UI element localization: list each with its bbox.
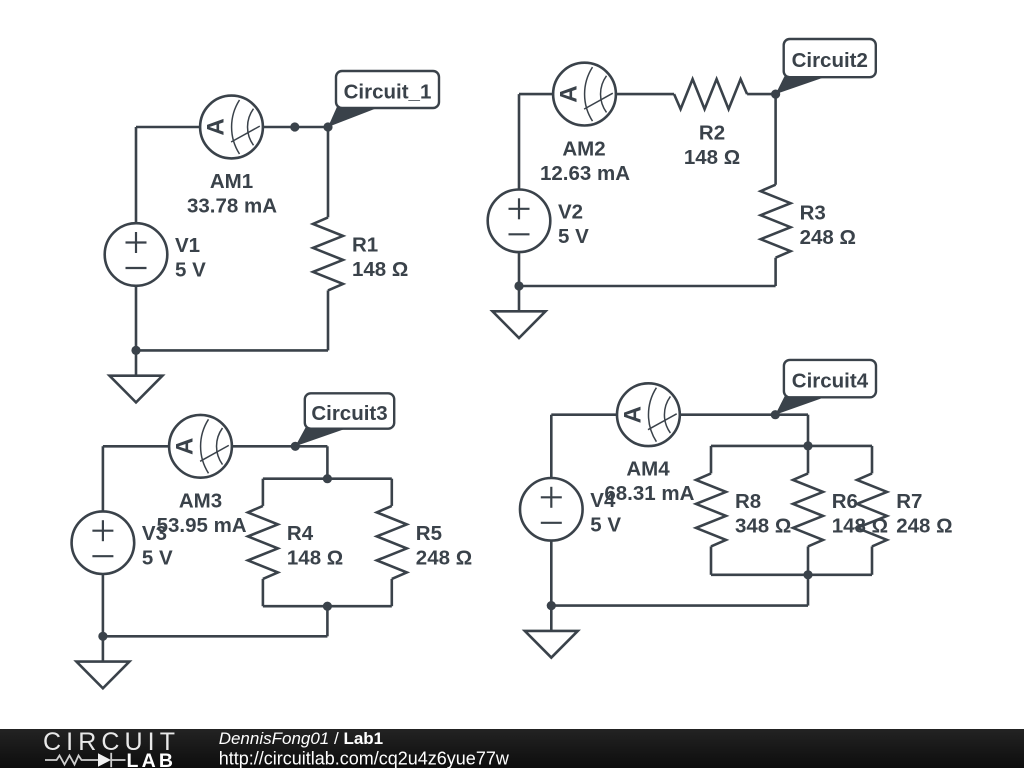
voltage source V1 xyxy=(105,223,168,286)
svg-text:Circuit2: Circuit2 xyxy=(792,49,868,72)
junction dot xyxy=(803,441,812,450)
logo resistor-diode glyph xyxy=(45,753,126,767)
wire xyxy=(136,349,328,352)
voltage source V4 xyxy=(520,478,583,541)
wire xyxy=(136,126,328,129)
node Circuit4 dot xyxy=(771,410,780,419)
node Circuit_1 dot xyxy=(323,122,332,131)
voltage source V3 xyxy=(72,511,135,574)
wire xyxy=(807,575,810,606)
svg-text:DennisFong01 / Lab1: DennisFong01 / Lab1 xyxy=(219,729,383,748)
wire xyxy=(390,579,393,606)
ammeter AM3 xyxy=(169,415,232,478)
svg-text:Circuit4: Circuit4 xyxy=(792,370,869,393)
wire xyxy=(807,415,810,446)
junction dot xyxy=(131,346,140,355)
svg-text:AM3: AM3 xyxy=(179,489,222,512)
svg-text:AM1: AM1 xyxy=(210,170,253,193)
svg-text:R5: R5 xyxy=(416,522,442,545)
junction dot xyxy=(803,570,812,579)
wire xyxy=(326,606,329,636)
svg-text:248 Ω: 248 Ω xyxy=(416,547,472,570)
wire xyxy=(262,479,265,506)
svg-text:A: A xyxy=(172,438,199,455)
svg-text:248 Ω: 248 Ω xyxy=(800,226,856,249)
wire xyxy=(327,127,330,217)
ground GND3 xyxy=(76,636,129,688)
wire xyxy=(390,479,393,506)
svg-text:5 V: 5 V xyxy=(558,225,589,248)
wire xyxy=(135,127,138,350)
svg-text:148 Ω: 148 Ω xyxy=(684,146,740,169)
ground GND4 xyxy=(525,606,578,658)
wire xyxy=(774,94,777,185)
ground GND1 xyxy=(110,350,163,402)
net flag Circuit_1 xyxy=(328,71,439,127)
svg-text:348 Ω: 348 Ω xyxy=(735,514,791,537)
junction dot xyxy=(323,602,332,611)
voltage source V2 xyxy=(488,190,551,253)
wire xyxy=(710,546,713,574)
junction dot xyxy=(323,474,332,483)
wire xyxy=(262,579,265,606)
resistor R2 xyxy=(674,79,747,109)
svg-text:248 Ω: 248 Ω xyxy=(896,514,952,537)
wire xyxy=(103,635,328,638)
svg-text:R8: R8 xyxy=(735,490,761,513)
wire xyxy=(263,477,392,480)
resistor R1 xyxy=(313,217,343,290)
wire xyxy=(519,285,776,288)
svg-text:148 Ω: 148 Ω xyxy=(832,514,888,537)
net flag Circuit4 xyxy=(775,360,876,415)
svg-text:Circuit3: Circuit3 xyxy=(311,402,387,425)
wire xyxy=(519,93,674,96)
ammeter AM4 xyxy=(617,383,680,446)
svg-text:148 Ω: 148 Ω xyxy=(352,258,408,281)
wire xyxy=(102,446,105,636)
svg-text:A: A xyxy=(203,118,230,135)
svg-text:AM4: AM4 xyxy=(626,458,670,481)
junction dot xyxy=(98,632,107,641)
wire xyxy=(711,573,872,576)
wire xyxy=(711,445,872,448)
svg-text:V4: V4 xyxy=(590,489,616,512)
resistor R7 xyxy=(857,473,887,546)
junction dot xyxy=(514,281,523,290)
svg-text:R3: R3 xyxy=(800,201,826,224)
wire xyxy=(518,94,521,286)
wire xyxy=(807,446,810,474)
svg-text:Circuit_1: Circuit_1 xyxy=(344,81,432,104)
wire xyxy=(871,446,874,474)
wire xyxy=(807,546,810,574)
resistor R4 xyxy=(248,506,278,579)
node Circuit2 dot xyxy=(771,90,780,99)
resistor R6 xyxy=(793,473,823,546)
wire xyxy=(710,446,713,474)
ammeter AM1 xyxy=(200,96,263,159)
wire xyxy=(326,446,329,478)
wire xyxy=(550,415,553,606)
svg-text:R7: R7 xyxy=(896,490,922,513)
svg-text:V3: V3 xyxy=(142,522,167,545)
svg-text:R4: R4 xyxy=(287,522,314,545)
svg-text:5 V: 5 V xyxy=(142,547,173,570)
svg-text:33.78 mA: 33.78 mA xyxy=(187,195,277,218)
svg-text:53.95 mA: 53.95 mA xyxy=(157,514,247,537)
svg-text:148 Ω: 148 Ω xyxy=(287,547,343,570)
svg-text:V1: V1 xyxy=(175,234,200,257)
wire xyxy=(263,605,392,608)
node Circuit3 dot xyxy=(291,442,300,451)
resistor R8 xyxy=(696,473,726,546)
wire xyxy=(551,413,808,416)
wire xyxy=(327,290,330,350)
ground GND2 xyxy=(493,286,546,338)
wire xyxy=(774,258,777,286)
wire xyxy=(747,93,776,96)
svg-text:R2: R2 xyxy=(699,121,725,144)
net flag Circuit2 xyxy=(776,39,876,94)
svg-text:12.63 mA: 12.63 mA xyxy=(540,162,630,185)
junction dot xyxy=(547,601,556,610)
wire xyxy=(103,445,328,448)
wire xyxy=(871,546,874,574)
junction dot xyxy=(290,122,299,131)
svg-text:5 V: 5 V xyxy=(175,259,206,282)
svg-text:http://circuitlab.com/cq2u4z6y: http://circuitlab.com/cq2u4z6yue77w xyxy=(219,749,510,768)
svg-text:68.31 mA: 68.31 mA xyxy=(604,482,694,505)
svg-text:R1: R1 xyxy=(352,234,378,257)
svg-text:5 V: 5 V xyxy=(590,513,621,536)
svg-text:A: A xyxy=(556,85,583,102)
svg-text:A: A xyxy=(620,406,647,423)
logo diode triangle xyxy=(98,753,111,767)
ammeter AM2 xyxy=(553,63,616,126)
net flag Circuit3 xyxy=(295,393,394,446)
svg-text:LAB: LAB xyxy=(127,750,177,768)
resistor R3 xyxy=(761,185,791,258)
svg-text:V2: V2 xyxy=(558,200,583,223)
svg-text:R6: R6 xyxy=(832,490,858,513)
wire xyxy=(551,604,808,607)
resistor R5 xyxy=(377,506,407,579)
svg-text:AM2: AM2 xyxy=(562,137,605,160)
